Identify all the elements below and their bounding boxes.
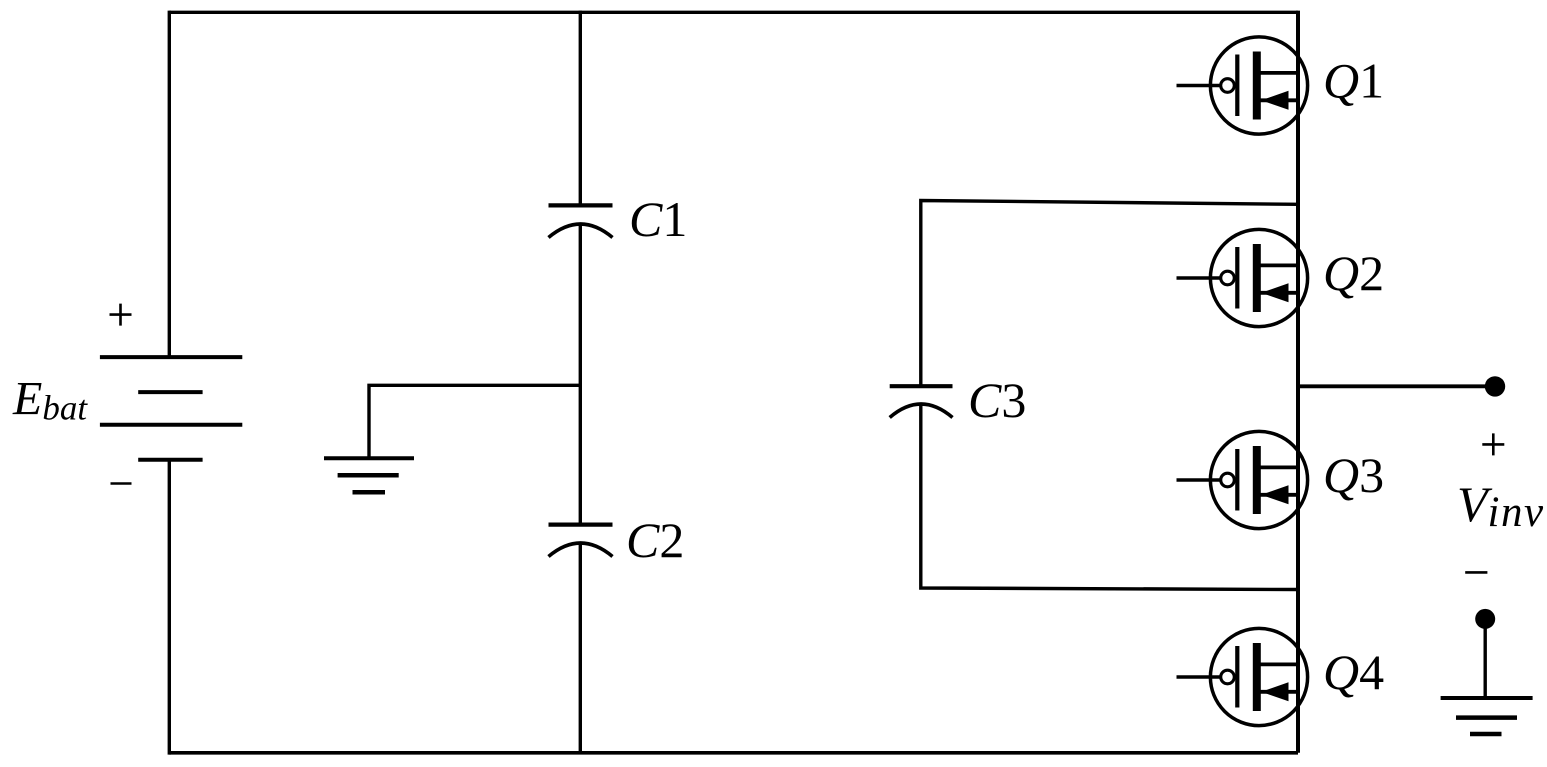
wire C3 branch top [921,201,1298,387]
Q3 gate bar [1235,449,1239,511]
Q1 drain lead [1260,71,1298,75]
Q1 gate lead [1177,84,1221,87]
Q3 gate bubble [1221,473,1235,487]
wire top edge [169,11,1298,14]
Q4 source lead [1260,690,1298,694]
svg-text:Q1: Q1 [1323,53,1384,109]
Q4 body circle [1210,628,1307,725]
svg-text:Q4: Q4 [1323,644,1384,700]
Q4 gate bar [1235,646,1239,708]
capacitor C2 curved plate [549,543,613,557]
capacitor C2 straight plate [549,522,613,526]
Q3 body circle [1210,431,1307,528]
svg-text:Ebat: Ebat [12,373,88,428]
Q4 drain lead [1260,663,1298,667]
Q4 gate bubble [1221,670,1235,684]
wire midpoint to ground [369,385,580,458]
wire capacitor branch lower [579,543,582,753]
battery Ebat plate 2 short [138,390,202,394]
battery Ebat plate 1 long [100,355,242,359]
capacitor C3 straight plate [890,384,953,388]
svg-text:Vinv: Vinv [1457,476,1545,536]
ground mid bar 1 [324,456,414,460]
ground right bar 2 [1456,715,1517,720]
wire C3 branch bottom [921,404,1298,590]
capacitor C1 curved plate [549,224,613,238]
Q2 gate bubble [1221,271,1235,285]
wire left side upper [168,11,171,357]
Q2 gate lead [1177,276,1221,279]
Q4 gate lead [1177,675,1221,678]
wire output node [1298,384,1495,388]
capacitor C1 straight plate [549,203,613,207]
wire left side lower [168,460,171,755]
ground mid bar 2 [338,473,399,478]
node ground dot [1475,609,1495,629]
Q3 source arrow [1261,485,1288,504]
Q1 gate bubble [1221,79,1235,93]
Q2 channel bar [1253,244,1261,312]
node output dot [1485,376,1505,396]
label Vinv plus [1482,433,1504,455]
transistor Q1 [1177,37,1308,134]
Q3 channel bar [1253,446,1261,514]
ground right bar 3 [1470,732,1502,737]
Q3 gate lead [1177,478,1221,481]
Q1 source arrow [1261,91,1288,110]
transistor Q2 [1177,229,1308,326]
Q1 body circle [1210,37,1307,134]
wire dot to ground [1483,619,1486,698]
Q2 body circle [1210,229,1307,326]
Q3 source lead [1260,493,1298,497]
Q4 source arrow [1261,682,1288,701]
Q2 gate bar [1235,247,1239,309]
capacitor C3 curved plate [890,404,953,418]
Q1 source lead [1260,98,1298,102]
Q2 source lead [1260,291,1298,295]
Q2 drain lead [1260,263,1298,267]
transistor Q3 [1177,431,1308,528]
svg-text:C3: C3 [968,372,1026,428]
battery Ebat plate 3 long [100,423,242,427]
label Vinv minus [1465,571,1487,574]
wire capacitor branch upper [579,11,582,206]
ground mid bar 3 [353,490,386,495]
transistor Q4 [1177,628,1308,725]
Q2 source arrow [1261,283,1288,302]
wire right bus [1296,11,1300,753]
svg-text:C2: C2 [626,512,684,568]
label battery minus [111,482,132,485]
svg-text:Q3: Q3 [1323,447,1384,503]
Q1 gate bar [1235,55,1239,117]
battery Ebat plate 4 short [138,458,202,462]
Q1 channel bar [1253,52,1261,120]
wire bottom edge [169,751,1298,755]
svg-text:C1: C1 [629,191,687,247]
ground right bar 1 [1441,696,1533,700]
Q4 channel bar [1253,643,1261,711]
Q3 drain lead [1260,465,1298,469]
svg-text:Q2: Q2 [1323,245,1384,301]
wire capacitor branch middle [579,224,582,525]
label battery plus [110,304,132,326]
